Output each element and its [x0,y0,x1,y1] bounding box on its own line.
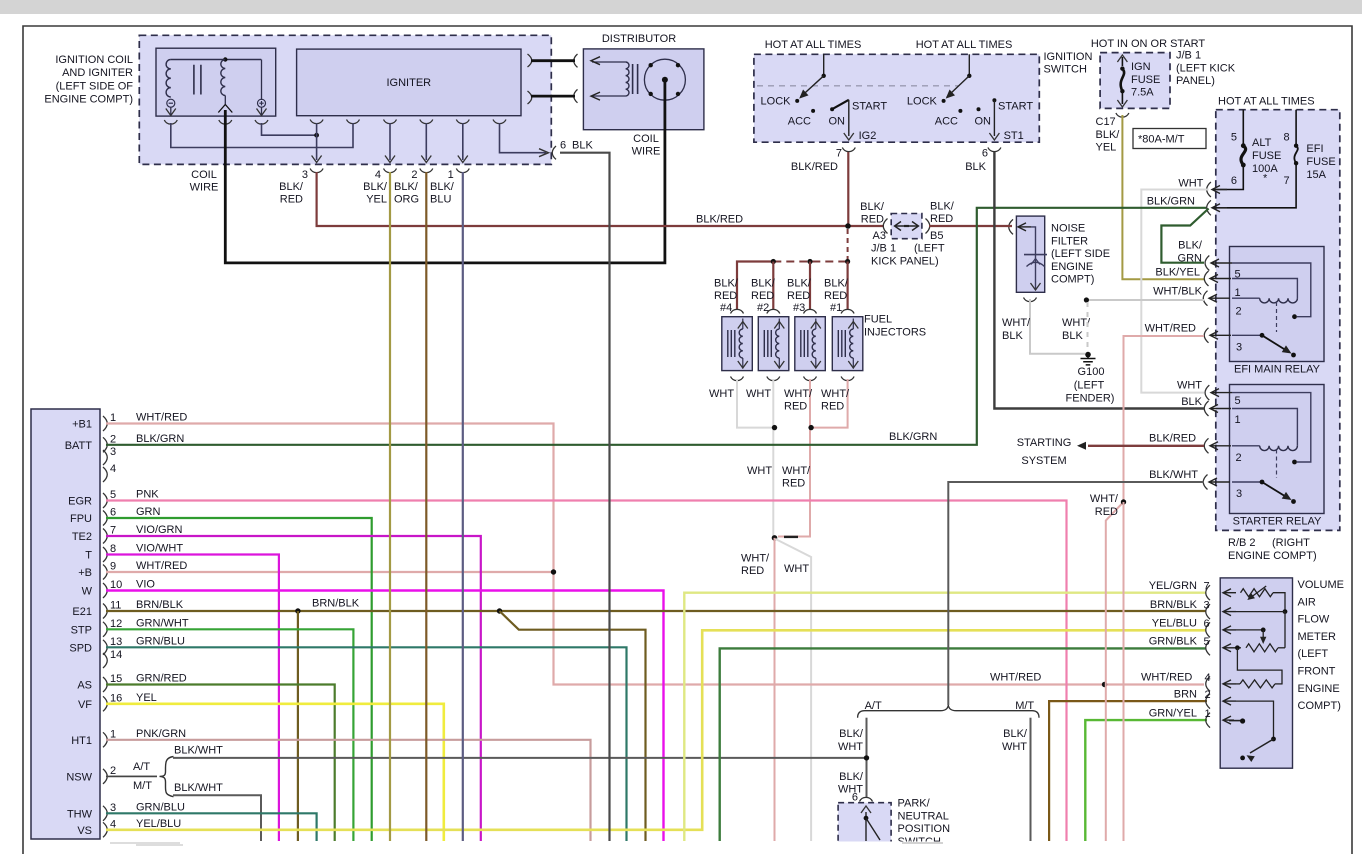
VAF pin 7 connector [1206,585,1210,600]
svg-text:SWITCH: SWITCH [1044,64,1087,76]
svg-text:ENGINE COMPT): ENGINE COMPT) [44,94,133,106]
switch2 blade to LOCK [947,76,969,97]
node WHT/RED VAF4 junction [1102,682,1107,687]
dashed BLK/RED drop to injector bus [847,229,849,259]
svg-text:E21: E21 [72,606,92,618]
svg-text:AS: AS [77,680,92,692]
ECU pin 5 EGR arc [103,493,107,508]
svg-text:BLK/YEL: BLK/YEL [1155,267,1200,279]
ECU pin 15 AS arc [103,677,107,692]
svg-text:#4: #4 [720,302,732,314]
svg-text:START: START [998,101,1033,113]
svg-text:BLK/: BLK/ [1003,728,1028,740]
injector return 4 [737,379,772,428]
svg-text:WHT: WHT [1177,380,1202,392]
svg-text:BLK/: BLK/ [839,728,864,740]
swap tick [784,536,798,538]
noise filter box [1016,216,1044,292]
coil box pin cup minus [164,120,177,124]
svg-text:NSW: NSW [66,771,92,783]
svg-text:RED: RED [714,290,737,302]
AT/MT brace park [858,705,1039,718]
wire BRN/BLK branch2 diagonal [500,611,646,841]
svg-text:RED: RED [787,290,810,302]
ECU pin 4 VS arc [103,822,107,837]
svg-text:12: 12 [110,618,122,630]
svg-text:(LEFT: (LEFT [1074,380,1105,392]
ignition coil and igniter dashed box [139,35,551,164]
svg-text:SPD: SPD [69,642,92,654]
svg-text:BLK/: BLK/ [860,201,885,213]
svg-text:M/T: M/T [1015,700,1034,712]
injector #2 internals [764,330,771,357]
node +B junction [551,569,556,574]
EFI relay internal top path [1232,263,1311,317]
park neutral dashed box [838,803,891,844]
wire STP GRN/WHT [106,629,353,841]
svg-text:GRN: GRN [136,506,161,518]
svg-text:PARK/: PARK/ [898,798,931,810]
ECU pin 10 W arc [103,583,107,598]
svg-text:ST1: ST1 [1004,130,1024,142]
switch1 IG2 wire [848,100,850,136]
dashed wire to G100 [1087,302,1089,350]
svg-text:(LEFT SIDE OF: (LEFT SIDE OF [56,80,134,92]
svg-text:GRN/BLU: GRN/BLU [136,635,185,647]
switch1 blade to LOCK [801,76,824,97]
distributor input arrows [591,57,600,100]
svg-text:YEL/BLU: YEL/BLU [136,818,181,830]
svg-text:COMPT): COMPT) [1051,274,1094,286]
wire +B1/+B WHT/RED network [106,424,1204,685]
svg-text:#1: #1 [830,302,842,314]
connector B5 arc [926,219,930,234]
svg-text:WHT: WHT [746,388,771,400]
svg-text:VIO: VIO [136,579,155,591]
svg-text:6: 6 [1204,618,1210,630]
svg-text:BLK/: BLK/ [839,771,864,783]
VAF pot1 [1241,589,1274,597]
ignition coil secondary tap chevron [218,105,232,113]
ECU pin 4 arc [103,467,107,482]
wire E21 BRN/BLK [106,610,1206,612]
wire WHT/RED relay3 path [1106,336,1204,841]
svg-text:6: 6 [852,792,858,804]
svg-text:BLK/WHT: BLK/WHT [174,782,223,794]
svg-text:W: W [82,586,93,598]
igniter box [297,49,521,116]
svg-text:RED: RED [930,213,953,225]
svg-text:YEL/BLU: YEL/BLU [1152,617,1197,629]
wire BLK/YEL igniter4 [389,172,391,841]
injector #2 bottom cup [767,377,780,381]
ECU pin 6 FPU arc [103,511,107,526]
injector bus dots [771,259,776,264]
svg-text:BLK/WHT: BLK/WHT [174,745,223,757]
svg-text:FPU: FPU [70,513,92,525]
svg-text:RED: RED [784,401,807,413]
svg-text:BLK: BLK [1002,330,1023,342]
switch2 position dots [942,99,946,103]
svg-text:WHT: WHT [1002,741,1027,753]
svg-text:START: START [852,101,887,113]
switch2 ST1 wire [993,100,995,136]
ECU pin 2 BATT arc [103,437,107,452]
svg-text:VIO/GRN: VIO/GRN [136,524,183,536]
wire igniter pin to exit 4 [389,123,391,160]
injector return 1 [813,379,848,428]
wire YEL/GRN to VAF7 [684,593,1206,841]
svg-text:FRONT: FRONT [1298,666,1336,678]
wire NSW M/T BLK/WHT [173,795,261,841]
injector #3 top cup [804,309,817,313]
svg-text:PANEL): PANEL) [1176,75,1215,87]
starter relay dashed actuator [1276,450,1278,479]
svg-text:RED: RED [824,290,847,302]
svg-text:5: 5 [110,489,116,501]
svg-text:(LEFT: (LEFT [914,243,945,255]
igniter bottom pin cup x=316.6 [310,120,323,124]
svg-text:3: 3 [302,169,308,181]
svg-text:HT1: HT1 [71,735,92,747]
svg-text:GRN/BLU: GRN/BLU [136,801,185,813]
injector #1 box [832,317,863,371]
svg-text:ENGINE: ENGINE [1051,261,1093,273]
svg-text:WHT/: WHT/ [821,388,850,400]
svg-text:7: 7 [1204,581,1210,593]
ignition coil positive pin arrow [257,109,267,116]
svg-text:(LEFT: (LEFT [1298,648,1329,660]
svg-text:WHT: WHT [838,783,863,795]
svg-text:BRN: BRN [1174,689,1197,701]
exit cup 3 [310,169,323,173]
svg-text:STP: STP [71,624,92,636]
wire A/T branch [866,718,868,798]
injector #1 top cup [841,309,854,313]
VAF loop [1237,648,1282,685]
VAF pin 2 connector [1206,694,1210,709]
svg-text:5: 5 [1204,636,1210,648]
svg-text:BATT: BATT [65,440,93,452]
svg-text:ENGINE: ENGINE [1298,683,1340,695]
starter relay internal pin5 path [1232,409,1297,446]
wire NSW A/T BLK/WHT [173,757,867,759]
EFI fuse element [1295,110,1297,146]
svg-text:BLK/: BLK/ [1178,240,1203,252]
svg-text:BLK/: BLK/ [787,278,812,290]
injector drop 2 [772,262,774,310]
svg-text:BLK/: BLK/ [714,278,739,290]
injector #4 bottom cup [731,377,744,381]
BLK/GRN exit connector [1207,200,1211,215]
wire WHT/RED jog continue down [1123,502,1125,841]
node WHT swap dot [772,535,778,541]
injector return 2 [772,379,774,537]
node BLK/RED junction [845,223,851,229]
NSW brace [160,757,174,797]
wire BLK/RED igniter pin3 run [317,172,884,226]
note box *80A-M/T [1133,129,1206,149]
svg-text:BLK/RED: BLK/RED [791,161,838,173]
svg-text:FUSE: FUSE [1306,156,1335,168]
ECU pin 12 STP arc [103,622,107,637]
svg-text:TE2: TE2 [72,531,92,543]
svg-text:WHT/: WHT/ [1002,317,1031,329]
ECU pin 8 T arc [103,547,107,562]
svg-text:J/B 1: J/B 1 [1176,50,1201,62]
wire M/T branch [1030,718,1032,841]
wire WHT/BLK filter to G100 [1030,299,1085,354]
svg-text:1: 1 [110,728,116,740]
exit cup 4 [384,169,397,173]
noise filter connector [1009,219,1013,234]
svg-text:GRN/RED: GRN/RED [136,673,187,685]
node coil top junction [223,57,227,61]
svg-text:HOT AT ALL TIMES: HOT AT ALL TIMES [765,39,862,51]
svg-text:4: 4 [110,463,116,475]
svg-text:5: 5 [1231,132,1237,144]
svg-text:A3: A3 [873,230,886,242]
node A/T dot [864,755,869,760]
distributor pickup winding [626,62,629,96]
VAF pin 4 connector [1206,676,1210,691]
svg-text:DISTRIBUTOR: DISTRIBUTOR [602,33,676,45]
injector #2 top cup [767,309,780,313]
svg-text:VS: VS [77,825,92,837]
svg-text:*: * [1263,173,1268,185]
svg-text:COMPT): COMPT) [1298,700,1341,712]
node WHT/BLK junction [1084,297,1089,302]
wire BLK/WHT starter3 to brace [948,482,1204,705]
svg-text:YEL: YEL [1096,142,1117,154]
svg-text:1: 1 [448,169,454,181]
wire TE2 VIO/GRN [106,536,481,841]
svg-text:HOT AT ALL TIMES: HOT AT ALL TIMES [916,39,1013,51]
svg-text:BRN/BLK: BRN/BLK [136,599,184,611]
starter relay coil [1232,445,1260,447]
starter relay internal top path [1232,393,1311,462]
svg-text:LOCK: LOCK [907,96,938,108]
switch linkage dashed [757,85,958,87]
svg-text:WHT/RED: WHT/RED [136,560,187,572]
ECU pin 13 SPD arc [103,640,107,655]
svg-text:RED: RED [280,194,303,206]
wire WHT fuse to starter relay [1141,190,1208,393]
svg-text:NOISE: NOISE [1051,223,1085,235]
wire WHT jog down [776,539,812,841]
svg-text:+B: +B [78,567,92,579]
VAF pin 6 connector [1206,622,1210,637]
svg-text:M/T: M/T [133,780,152,792]
node WHT/RED jog dot [1121,499,1126,504]
svg-text:BLK/: BLK/ [363,181,388,193]
svg-text:GRN/BLK: GRN/BLK [1149,635,1198,647]
igniter right pin cups [528,54,532,104]
injector #4 top cup [731,309,744,313]
injector return 3 [778,379,810,537]
svg-text:GRN/YEL: GRN/YEL [1149,708,1197,720]
NSW pin line [106,775,157,777]
wire SPD GRN/BLU [106,647,627,841]
wire BLK/ORG igniter2 [425,172,427,841]
bottom white crop band [25,842,1352,854]
svg-text:HOT AT ALL TIMES: HOT AT ALL TIMES [1218,96,1315,108]
svg-text:BLK/: BLK/ [279,181,304,193]
svg-text:IG2: IG2 [859,130,877,142]
igniter bottom pin cup x=426.3 [420,120,433,124]
wire BLK/RED B5 to noise filter [929,225,1012,227]
node coil plus junction [314,133,319,138]
svg-text:FENDER): FENDER) [1066,393,1115,405]
EFI relay pin1 connector [1203,291,1207,306]
svg-text:AND IGNITER: AND IGNITER [62,67,133,79]
svg-text:8: 8 [1283,132,1289,144]
ignition coil secondary winding [221,60,226,96]
svg-text:HOT IN ON OR START: HOT IN ON OR START [1091,38,1206,50]
ECU pin 3 arc [103,450,107,465]
svg-text:YEL: YEL [366,194,387,206]
exit arc 6 BLK [552,146,556,159]
svg-text:7: 7 [1283,175,1289,187]
svg-text:BLK/: BLK/ [751,278,776,290]
svg-text:WHT/RED: WHT/RED [1141,672,1192,684]
igniter bottom pin cup x=462.8 [456,120,469,124]
switch1 position dots [795,99,799,103]
svg-text:3: 3 [1236,488,1242,500]
IGN fuse element [1121,57,1123,66]
svg-text:3: 3 [1204,600,1210,612]
svg-text:COIL: COIL [633,133,659,145]
igniter bottom pin cup x=390 [384,120,397,124]
connector A3 arc [883,219,887,234]
ignition coil negative pin arrow [166,109,176,116]
injector #4 internals [728,330,735,357]
VAF pin3 node [1283,609,1288,614]
svg-text:R/B 2: R/B 2 [1228,537,1256,549]
svg-text:BRN/BLK: BRN/BLK [1150,599,1198,611]
svg-text:5: 5 [1235,395,1241,407]
wire BATT BLK/GRN [106,208,1206,445]
switch1 blade ON-START [832,100,849,109]
svg-text:WHT/RED: WHT/RED [990,672,1041,684]
wire igniter pin to exit 3 [316,123,318,160]
injector drop 1 [846,262,848,310]
wire BRN to VAF2 [1049,701,1207,841]
svg-text:STARTING: STARTING [1017,437,1072,449]
exit cup 2 [420,169,433,173]
svg-text:C17: C17 [1096,116,1116,128]
wire igniter to distributor upper [531,59,575,62]
svg-text:KICK PANEL): KICK PANEL) [871,256,939,268]
wire BLK/RED starting system [1088,445,1204,447]
svg-text:7: 7 [110,525,116,537]
svg-text:WHT/: WHT/ [741,553,770,565]
svg-text:RED: RED [861,214,884,226]
svg-text:3: 3 [110,802,116,814]
svg-text:3: 3 [110,446,116,458]
svg-text:WHT/BLK: WHT/BLK [1153,286,1203,298]
EFI main relay box [1230,247,1325,362]
wire igniter to distributor lower [531,95,575,98]
svg-text:BLK: BLK [1181,396,1202,408]
svg-text:A/T: A/T [133,761,150,773]
svg-text:ORG: ORG [394,194,419,206]
IGN fuse dashed box [1100,53,1170,109]
wire igniter pin to exit 2 [425,123,427,160]
svg-text:EFI: EFI [1306,143,1323,155]
wire BLK/BLU igniter1 [462,172,464,841]
ignition coil top wire [171,59,261,61]
top gray toolbar strip [0,0,1362,14]
igniter bottom pin cup x=499.5 [493,120,506,124]
switch1 feed wire [823,54,825,76]
svg-text:BLK/: BLK/ [1096,129,1121,141]
svg-text:2: 2 [1236,306,1242,318]
VAF box [1220,578,1292,768]
injector #2 box [758,317,789,371]
svg-text:RED: RED [821,401,844,413]
svg-text:ON: ON [829,116,846,128]
svg-text:2: 2 [411,169,417,181]
svg-text:RED: RED [1095,506,1118,518]
wire GRN/BLK to VAF5 [720,648,1206,841]
svg-text:BRN/BLK: BRN/BLK [312,598,360,610]
svg-text:THW: THW [67,808,93,820]
svg-text:WHT: WHT [1178,178,1203,190]
svg-text:POSITION: POSITION [898,823,951,835]
VAF pot3 pin4 [1240,680,1275,688]
noise filter internal [1019,226,1031,228]
svg-text:6: 6 [110,507,116,519]
A3/B5 double arrow [895,225,918,227]
VAF pot2 [1236,647,1241,649]
ignition switch dashed box [754,54,1039,142]
ECU pin 1 HT1 arc [103,732,107,747]
svg-text:YEL: YEL [136,692,157,704]
svg-text:VF: VF [78,699,92,711]
svg-text:WHT/: WHT/ [1090,493,1119,505]
svg-text:SYSTEM: SYSTEM [1021,455,1066,467]
svg-text:7: 7 [836,148,842,160]
svg-text:YEL/GRN: YEL/GRN [1149,580,1197,592]
ALT fuse element [1242,110,1244,146]
svg-text:(LEFT SIDE: (LEFT SIDE [1051,248,1110,260]
svg-text:J/B 1: J/B 1 [871,243,896,255]
switch2 exit cup [988,148,1001,152]
svg-text:INJECTORS: INJECTORS [864,327,926,339]
EFI relay top pin connector [1205,256,1209,271]
svg-text:1: 1 [1235,414,1241,426]
svg-text:10: 10 [110,579,122,591]
wire WHT/BLK relay pin1 [1086,299,1204,301]
coil wire thick path [225,80,665,263]
svg-text:BLK: BLK [572,140,593,152]
svg-text:GRN: GRN [1178,252,1203,264]
starter relay pin2 connector [1204,438,1208,453]
svg-text:STARTER RELAY: STARTER RELAY [1233,516,1322,528]
svg-text:ALT: ALT [1252,137,1272,149]
svg-text:RED: RED [782,478,805,490]
svg-text:BLK/: BLK/ [394,181,419,193]
svg-text:+B1: +B1 [72,419,92,431]
svg-text:ACC: ACC [935,116,958,128]
svg-text:VOLUME: VOLUME [1298,579,1344,591]
injector #3 internals [801,330,808,357]
svg-text:COIL: COIL [191,169,217,181]
park neutral cup [860,797,873,801]
injector #1 bottom cup [841,377,854,381]
svg-text:METER: METER [1298,631,1337,643]
